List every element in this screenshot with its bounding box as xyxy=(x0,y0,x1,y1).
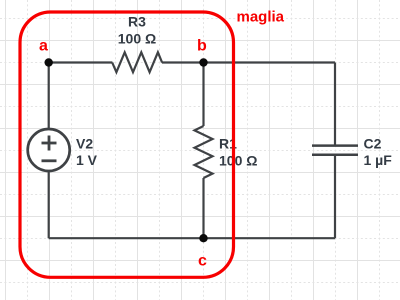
svg-text:V2: V2 xyxy=(76,136,93,152)
annotation maglia xyxy=(237,8,285,25)
wire node a to R3 left lead xyxy=(49,61,113,63)
resistor R3 xyxy=(112,52,162,72)
value label R3 100 ohm xyxy=(118,14,156,47)
svg-text:100 Ω: 100 Ω xyxy=(219,152,257,168)
wire node b down to R1 top lead xyxy=(202,63,204,127)
mesh boundary (maglia loop) xyxy=(20,12,234,277)
wire node a down to V2 top xyxy=(48,63,50,130)
junction node a xyxy=(45,58,53,66)
svg-text:a: a xyxy=(39,38,48,55)
value label V2 1 V xyxy=(76,136,98,169)
wire right branch down to C2 top plate xyxy=(334,63,336,146)
wire R1 bottom lead to node c xyxy=(202,178,204,238)
svg-text:R3: R3 xyxy=(128,14,146,30)
svg-text:100 Ω: 100 Ω xyxy=(118,31,156,47)
voltage source V2 xyxy=(28,129,70,171)
node label b xyxy=(197,38,207,55)
capacitor C2 xyxy=(312,146,358,155)
svg-text:1 V: 1 V xyxy=(76,152,98,168)
wire V2 bottom to bottom rail xyxy=(48,171,50,238)
value label R1 100 ohm xyxy=(219,136,257,169)
junction node b xyxy=(199,58,207,66)
svg-text:c: c xyxy=(198,253,207,270)
svg-text:b: b xyxy=(197,38,207,55)
wire C2 bottom plate down to bottom rail xyxy=(334,155,336,238)
svg-text:1 µF: 1 µF xyxy=(364,152,393,168)
wire bottom rail left to node c xyxy=(49,237,204,239)
svg-text:C2: C2 xyxy=(364,136,382,152)
node label a xyxy=(39,38,48,55)
resistor R1 xyxy=(195,126,213,178)
wire R3 right lead to node b xyxy=(162,61,204,63)
value label C2 1 uF xyxy=(364,136,393,168)
svg-text:maglia: maglia xyxy=(237,8,285,25)
junction node c xyxy=(199,234,207,242)
wire node b to right branch top xyxy=(204,61,336,63)
wire node c to right branch bottom xyxy=(204,237,336,239)
node label c xyxy=(198,253,207,270)
